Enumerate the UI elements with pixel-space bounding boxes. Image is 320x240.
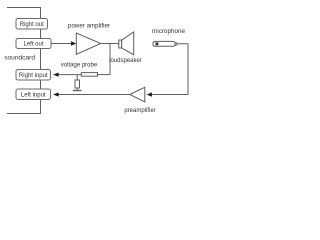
wire soundcard top edge [7, 8, 41, 20]
box Right out [16, 19, 48, 30]
wire junction down to voltage probe [98, 44, 110, 75]
svg-text:voltage probe: voltage probe [61, 63, 98, 69]
arrow into preamplifier [147, 92, 152, 96]
resistor vertical (voltage probe shunt) [75, 80, 80, 88]
wire resistor to ground [76, 88, 78, 90]
wire bus Left out to Right input [40, 49, 42, 71]
wire bus Right out to Left out [40, 29, 42, 39]
box Left out [16, 39, 51, 49]
wire preamplifier to Left input arrow [59, 94, 130, 96]
svg-text:power amplifier: power amplifier [68, 22, 110, 29]
op-amp preamplifier [124, 87, 155, 114]
svg-text:soundcard: soundcard [4, 55, 35, 62]
box Left input [16, 89, 51, 100]
wire microphone to corner [152, 44, 188, 95]
wire power amplifier to loudspeaker [101, 43, 119, 45]
loudspeaker [109, 32, 142, 64]
op-amp power amplifier [68, 22, 110, 54]
wire Left out to power amplifier [51, 43, 72, 45]
svg-text:Right input: Right input [19, 73, 48, 79]
svg-text:loudspeaker: loudspeaker [109, 58, 142, 64]
wire bus Right input to Left input [40, 80, 42, 90]
svg-text:Left input: Left input [21, 93, 46, 99]
arrow into Right input [53, 73, 59, 77]
svg-text:Left out: Left out [23, 42, 43, 48]
svg-text:Right out: Right out [20, 22, 44, 28]
wire soundcard bottom edge [7, 100, 41, 114]
ground [73, 90, 82, 92]
svg-text:microphone: microphone [152, 28, 185, 35]
arrow into power amplifier [71, 41, 76, 45]
resistor horizontal (voltage probe series) [61, 63, 98, 77]
box Right input [16, 70, 51, 81]
wire resistor to Right input arrow [59, 74, 82, 76]
wire divider tap down [76, 75, 78, 80]
microphone [152, 28, 185, 46]
svg-text:preamplifier: preamplifier [124, 108, 155, 114]
arrow into Left input [53, 92, 59, 96]
